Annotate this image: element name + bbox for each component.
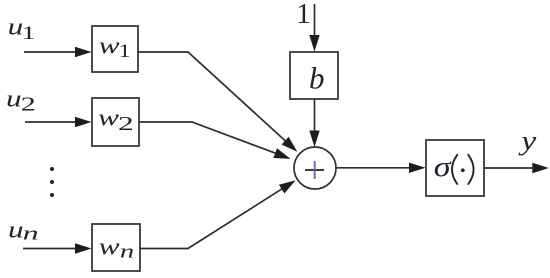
wire sum to sigma bbox=[336, 167, 412, 169]
vertical dots bbox=[50, 167, 54, 171]
arrowhead sum to sigma bbox=[409, 163, 426, 173]
wire sigma output bbox=[484, 167, 535, 169]
svg-text:y: y bbox=[518, 126, 537, 156]
svg-text:2: 2 bbox=[118, 113, 134, 135]
arrowhead b to sum bbox=[309, 131, 319, 148]
svg-text:u: u bbox=[8, 218, 24, 244]
svg-text:w: w bbox=[99, 33, 120, 59]
arrowhead un bbox=[75, 243, 92, 253]
wire 1 to b bbox=[314, 4, 316, 38]
arrowhead u2 bbox=[75, 117, 92, 127]
wire b to sum bbox=[314, 99, 316, 133]
wire w2 to sum bbox=[139, 122, 277, 154]
svg-text:n: n bbox=[120, 242, 134, 263]
arrowhead wn to sum bbox=[279, 180, 296, 193]
box wn bbox=[92, 224, 140, 271]
svg-text:w: w bbox=[99, 235, 120, 261]
wire w1 to sum bbox=[138, 52, 286, 142]
box w2 bbox=[92, 98, 139, 146]
arrowhead w2 to sum bbox=[273, 148, 290, 159]
sigma left paren bbox=[452, 155, 457, 184]
svg-text:u: u bbox=[6, 87, 22, 113]
plus sign horizontal bbox=[305, 169, 324, 171]
box b bbox=[290, 52, 338, 99]
arrowhead output bbox=[532, 163, 549, 173]
wire wn to sum bbox=[140, 188, 283, 248]
wire u2 input bbox=[25, 121, 78, 123]
svg-text:b: b bbox=[309, 60, 325, 95]
svg-text:1: 1 bbox=[22, 23, 36, 44]
wire u1 input bbox=[24, 51, 78, 53]
wire un input bbox=[23, 248, 78, 250]
plus sign vertical bbox=[314, 161, 316, 179]
box w1 bbox=[92, 26, 138, 72]
arrowhead u1 bbox=[75, 47, 92, 57]
svg-text:1: 1 bbox=[296, 0, 311, 30]
sigma right paren bbox=[468, 155, 473, 184]
svg-text:1: 1 bbox=[119, 41, 131, 62]
svg-text:w: w bbox=[98, 105, 119, 131]
sigma dot bbox=[461, 168, 465, 172]
svg-text:n: n bbox=[23, 224, 39, 245]
box sigma bbox=[426, 140, 484, 196]
svg-text:2: 2 bbox=[21, 94, 36, 116]
summing junction circle bbox=[294, 147, 336, 189]
arrowhead 1 to b bbox=[309, 35, 319, 52]
svg-text:σ: σ bbox=[434, 152, 452, 183]
arrowhead w1 to sum bbox=[282, 137, 298, 152]
